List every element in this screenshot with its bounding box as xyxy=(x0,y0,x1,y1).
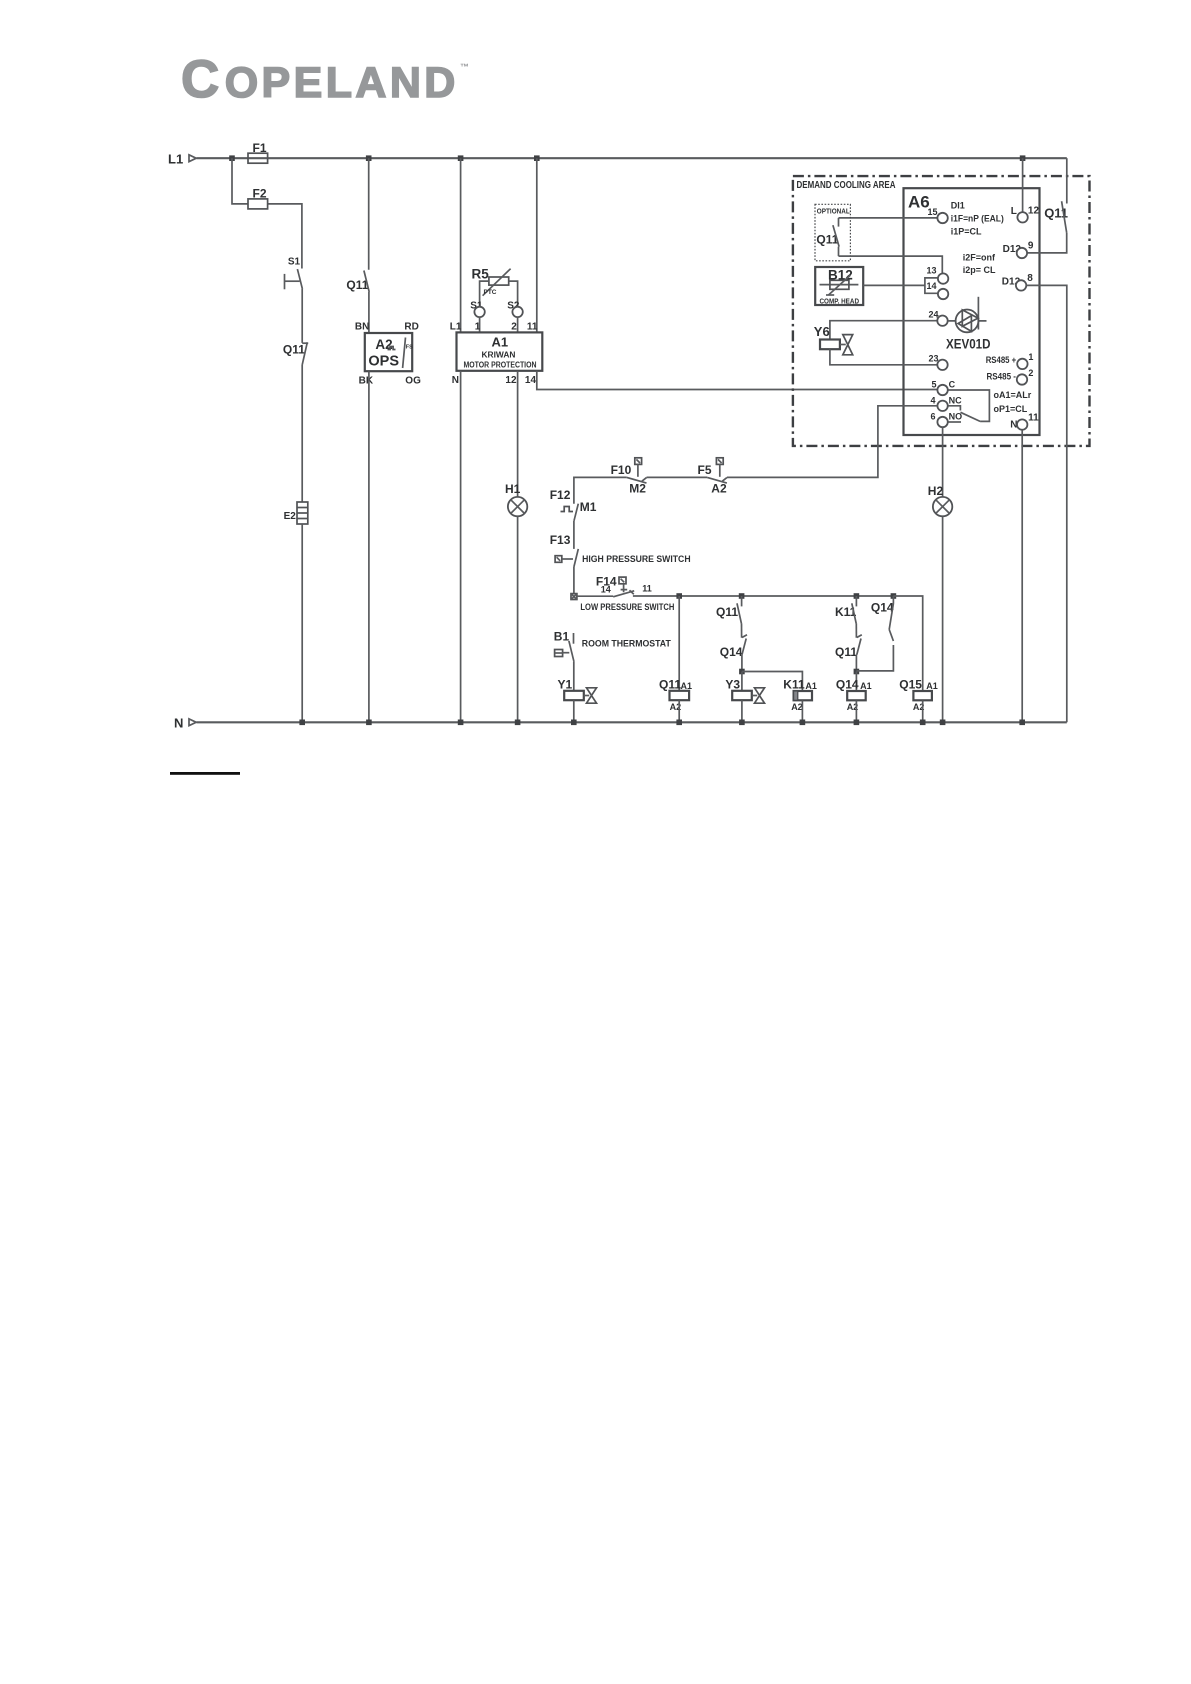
svg-text:Q11: Q11 xyxy=(283,343,305,357)
svg-text:2: 2 xyxy=(1028,368,1033,378)
fuse F2 xyxy=(248,186,268,209)
svg-text:OPTIONAL: OPTIONAL xyxy=(817,207,850,216)
svg-text:Y3: Y3 xyxy=(725,678,740,692)
pin 15 xyxy=(928,201,1004,237)
svg-text:A1: A1 xyxy=(860,681,872,691)
svg-text:4: 4 xyxy=(931,395,936,405)
wire R5 to S1/S2 xyxy=(480,281,518,307)
svg-text:Q14: Q14 xyxy=(836,678,859,692)
fuse F1 xyxy=(248,141,268,163)
svg-text:oA1=ALr: oA1=ALr xyxy=(994,390,1032,400)
svg-text:L: L xyxy=(1011,206,1017,217)
wire xyxy=(741,655,743,672)
svg-text:KRIWAN: KRIWAN xyxy=(482,350,516,359)
svg-text:NC: NC xyxy=(949,395,962,405)
wire pinN to rail xyxy=(1021,430,1023,723)
terminal S2 xyxy=(507,300,523,317)
pin D12/8 xyxy=(1002,273,1034,291)
svg-text:Q14: Q14 xyxy=(720,645,743,659)
wire xyxy=(368,158,370,270)
svg-text:A1: A1 xyxy=(681,681,693,691)
svg-text:NO: NO xyxy=(949,412,963,422)
i2 annotations xyxy=(963,252,996,275)
svg-text:COMP. HEAD: COMP. HEAD xyxy=(820,296,860,305)
wire xyxy=(801,700,803,722)
svg-text:1: 1 xyxy=(1028,352,1033,362)
wire pin6 to H2 xyxy=(942,427,944,497)
node xyxy=(739,720,745,726)
node bus Q11 coil xyxy=(676,593,682,599)
wire xyxy=(368,371,370,722)
wire A1 N to rail xyxy=(460,371,462,723)
node xyxy=(940,720,946,726)
svg-text:BN: BN xyxy=(355,322,369,333)
contact Q14 (parallel) xyxy=(871,596,894,641)
pin RS485+/1 xyxy=(986,352,1034,369)
svg-text:13: 13 xyxy=(927,266,937,276)
pin 4 xyxy=(931,395,963,411)
node L rail drop xyxy=(1020,155,1026,161)
thermistor R5 xyxy=(472,266,511,296)
svg-text:Y6: Y6 xyxy=(814,324,830,339)
svg-text:Q11: Q11 xyxy=(659,678,681,692)
node L1-pin11 branch xyxy=(534,155,540,161)
contact Q11 (E2 branch) xyxy=(283,342,308,364)
svg-text:F1: F1 xyxy=(253,141,267,155)
node xyxy=(515,720,521,726)
wire xyxy=(517,317,519,332)
svg-text:XEV01D: XEV01D xyxy=(946,336,991,352)
sensor B12 xyxy=(815,267,863,305)
wire xyxy=(856,645,893,671)
thermostat B1 xyxy=(554,629,671,661)
svg-text:Y1: Y1 xyxy=(558,678,573,692)
relay coil Q14 xyxy=(836,678,872,712)
pin 5 xyxy=(932,380,956,396)
controller A6 box xyxy=(904,188,1040,435)
node xyxy=(920,720,926,726)
wire xyxy=(922,700,924,722)
wire xyxy=(301,524,303,722)
N rail xyxy=(174,715,1067,730)
lamp H2 xyxy=(928,484,953,516)
node L1-A1 branch xyxy=(458,155,464,161)
svg-text:™: ™ xyxy=(460,62,469,72)
svg-text:L1: L1 xyxy=(168,151,183,166)
svg-text:K11: K11 xyxy=(783,678,805,692)
svg-text:oP1=CL: oP1=CL xyxy=(994,404,1028,414)
pin D12/9 xyxy=(1003,241,1034,259)
wire Y6 to pin23 xyxy=(830,349,937,365)
svg-text:14: 14 xyxy=(601,584,611,594)
svg-text:E2: E2 xyxy=(284,511,297,522)
svg-text:15: 15 xyxy=(928,207,938,217)
svg-text:i1P=CL: i1P=CL xyxy=(951,226,982,236)
contact F13 high pressure xyxy=(550,533,691,567)
svg-text:R5: R5 xyxy=(472,266,490,281)
svg-text:23: 23 xyxy=(929,353,939,363)
wire xyxy=(678,596,680,691)
wire F10 to F5 xyxy=(647,476,708,478)
svg-text:OPS: OPS xyxy=(368,354,399,370)
svg-text:Q11: Q11 xyxy=(716,605,738,619)
wire xyxy=(855,655,857,672)
svg-text:A2: A2 xyxy=(711,482,727,496)
svg-text:N: N xyxy=(174,715,183,730)
pin 24 xyxy=(929,309,948,326)
demand cooling area border xyxy=(793,176,1090,446)
wire xyxy=(460,158,462,332)
svg-text:14: 14 xyxy=(927,281,937,291)
stepper valve XEV01D xyxy=(946,297,991,352)
node xyxy=(366,720,372,726)
svg-text:COPELAND: COPELAND xyxy=(181,50,459,109)
switch S1 xyxy=(285,256,303,289)
wire xyxy=(573,700,575,722)
wire to K11 coil xyxy=(742,672,803,692)
wire xyxy=(678,700,680,722)
L1 rail xyxy=(168,151,1067,166)
svg-text:2: 2 xyxy=(511,322,517,333)
heater E2 xyxy=(284,502,308,524)
wire pin15 to optional xyxy=(839,217,938,219)
svg-text:M1: M1 xyxy=(580,500,597,514)
svg-text:MOTOR PROTECTION: MOTOR PROTECTION xyxy=(464,360,537,369)
terminal bracket 13/14 xyxy=(925,278,938,293)
node xyxy=(800,720,806,726)
wire to F12 xyxy=(574,477,627,503)
node xyxy=(854,720,860,726)
wire xyxy=(573,521,575,549)
svg-text:PTC: PTC xyxy=(484,289,497,296)
valve coil Y1 xyxy=(558,678,597,704)
svg-text:A1: A1 xyxy=(805,681,817,691)
node xyxy=(676,720,682,726)
svg-text:F2: F2 xyxy=(253,186,267,200)
wire B12 to bracket xyxy=(863,284,925,286)
pin 14 xyxy=(927,281,949,299)
contact Q11 (optional) xyxy=(816,218,839,256)
svg-text:DI1: DI1 xyxy=(951,201,965,211)
wire xyxy=(301,289,303,343)
contact F10/M2 xyxy=(611,458,647,496)
wire optional to pin13 xyxy=(839,256,943,273)
svg-text:RD: RD xyxy=(404,322,418,333)
contact Q11 (Y3 chain) xyxy=(716,596,742,623)
svg-text:12: 12 xyxy=(505,375,517,386)
coil bus wire xyxy=(633,595,894,597)
svg-text:L1: L1 xyxy=(450,322,462,333)
svg-text:11: 11 xyxy=(527,322,538,333)
svg-text:8: 8 xyxy=(1027,273,1033,284)
svg-text:Q11: Q11 xyxy=(346,278,368,292)
wire pin24 to Y6 xyxy=(830,321,937,340)
wire rail to pin L xyxy=(1022,158,1024,212)
svg-text:A2: A2 xyxy=(791,702,803,712)
svg-text:11: 11 xyxy=(1028,412,1039,423)
svg-text:LOW PRESSURE SWITCH: LOW PRESSURE SWITCH xyxy=(580,602,674,613)
wire xyxy=(517,516,519,722)
pin 13 xyxy=(927,266,949,284)
wire xyxy=(536,158,538,332)
node L1-OPS branch xyxy=(366,155,372,161)
optional box xyxy=(815,204,850,260)
motor protection module A1 xyxy=(450,322,543,386)
svg-text:B1: B1 xyxy=(554,629,570,643)
wire xyxy=(301,364,303,502)
svg-text:1: 1 xyxy=(475,322,481,333)
contact F12/M1 xyxy=(550,488,597,521)
valve coil Y3 xyxy=(725,678,764,704)
pin L/12 xyxy=(1011,206,1040,223)
node bus contact chain xyxy=(739,593,745,599)
footnote rule xyxy=(170,772,240,775)
Copeland logo xyxy=(181,50,469,109)
svg-text:F12: F12 xyxy=(550,488,571,502)
switch F14 low pressure xyxy=(571,574,675,613)
node xyxy=(571,720,577,726)
svg-text:14: 14 xyxy=(525,375,537,386)
OPS module A2 xyxy=(355,322,421,387)
svg-text:9: 9 xyxy=(1028,241,1034,252)
valve coil Y6 xyxy=(814,324,853,355)
output annotations xyxy=(994,390,1032,414)
relay coil K11 xyxy=(783,678,817,712)
wire pin8 to N rail xyxy=(1026,285,1067,722)
svg-text:DEMAND COOLING AREA: DEMAND COOLING AREA xyxy=(797,179,896,191)
svg-text:RS485 +: RS485 + xyxy=(986,355,1017,365)
contact F5/A2 xyxy=(698,458,727,496)
svg-text:BK: BK xyxy=(359,375,374,386)
wire xyxy=(741,672,743,691)
node xyxy=(299,720,305,726)
svg-text:C: C xyxy=(949,380,956,390)
svg-text:OG: OG xyxy=(405,375,421,386)
node L1-F2 branch xyxy=(229,155,235,161)
contact Q11 (Q14 chain) xyxy=(835,635,862,659)
node xyxy=(854,669,860,675)
pin N/11 xyxy=(1010,412,1039,430)
wire xyxy=(479,317,481,332)
svg-text:S1: S1 xyxy=(288,256,301,267)
relay coil Q15 xyxy=(899,678,938,712)
wire pin4 to F5 xyxy=(727,406,938,478)
svg-text:N: N xyxy=(452,375,459,386)
wire xyxy=(573,567,575,594)
svg-text:i2F=onf: i2F=onf xyxy=(963,252,996,262)
contact Q14 (Y3 chain) xyxy=(720,635,747,659)
svg-text:i1F=nP (EAL): i1F=nP (EAL) xyxy=(951,214,1004,224)
lamp H1 xyxy=(505,482,527,516)
svg-text:A1: A1 xyxy=(492,334,509,349)
wire xyxy=(368,292,370,333)
svg-text:F5: F5 xyxy=(698,463,712,477)
svg-text:5: 5 xyxy=(932,380,937,390)
svg-text:Q15: Q15 xyxy=(899,678,922,692)
svg-text:HIGH PRESSURE SWITCH: HIGH PRESSURE SWITCH xyxy=(582,554,691,565)
svg-text:11: 11 xyxy=(642,584,652,594)
pin RS485-/2 xyxy=(987,368,1034,385)
wire xyxy=(942,516,944,722)
terminal S1 xyxy=(470,300,485,317)
contact K11 xyxy=(835,596,857,623)
node xyxy=(1019,720,1025,726)
pin 6 xyxy=(931,412,963,428)
wire to F2 xyxy=(232,158,302,268)
svg-text:i2p= CL: i2p= CL xyxy=(963,265,996,275)
node bus K11 chain xyxy=(854,593,860,599)
svg-text:RS485 -: RS485 - xyxy=(987,372,1017,382)
svg-text:Q11: Q11 xyxy=(835,645,857,659)
relay contact C/NC/NO xyxy=(948,390,990,421)
contact Q11 (OPS branch) xyxy=(346,271,369,293)
svg-text:F10: F10 xyxy=(611,463,632,477)
wire xyxy=(741,700,743,722)
svg-text:F13: F13 xyxy=(550,533,571,547)
wire xyxy=(573,662,575,691)
pin 23 xyxy=(929,353,948,370)
svg-text:A6: A6 xyxy=(908,193,930,212)
contact Q11 (right) xyxy=(1027,158,1068,253)
node bus Q14 contact xyxy=(891,593,897,599)
wire A1 pin14 to A6 pin5 xyxy=(537,371,938,390)
svg-text:H2: H2 xyxy=(928,484,944,498)
svg-text:Q14: Q14 xyxy=(871,601,894,615)
svg-text:H1: H1 xyxy=(505,482,521,496)
wire A1 pin12 to H1 xyxy=(517,371,519,497)
svg-text:FS: FS xyxy=(406,345,413,351)
wire bus to Q15 xyxy=(893,596,922,691)
svg-text:6: 6 xyxy=(931,412,936,422)
svg-text:M2: M2 xyxy=(629,482,646,496)
wire xyxy=(855,672,857,692)
wire xyxy=(855,623,857,637)
svg-text:ROOM THERMOSTAT: ROOM THERMOSTAT xyxy=(582,638,671,649)
node xyxy=(458,720,464,726)
wire xyxy=(855,700,857,722)
svg-text:12: 12 xyxy=(1028,206,1040,217)
svg-text:A1: A1 xyxy=(926,681,938,691)
relay coil Q11 xyxy=(659,678,692,712)
node xyxy=(739,669,745,675)
wire xyxy=(741,623,743,637)
svg-text:24: 24 xyxy=(929,309,939,319)
